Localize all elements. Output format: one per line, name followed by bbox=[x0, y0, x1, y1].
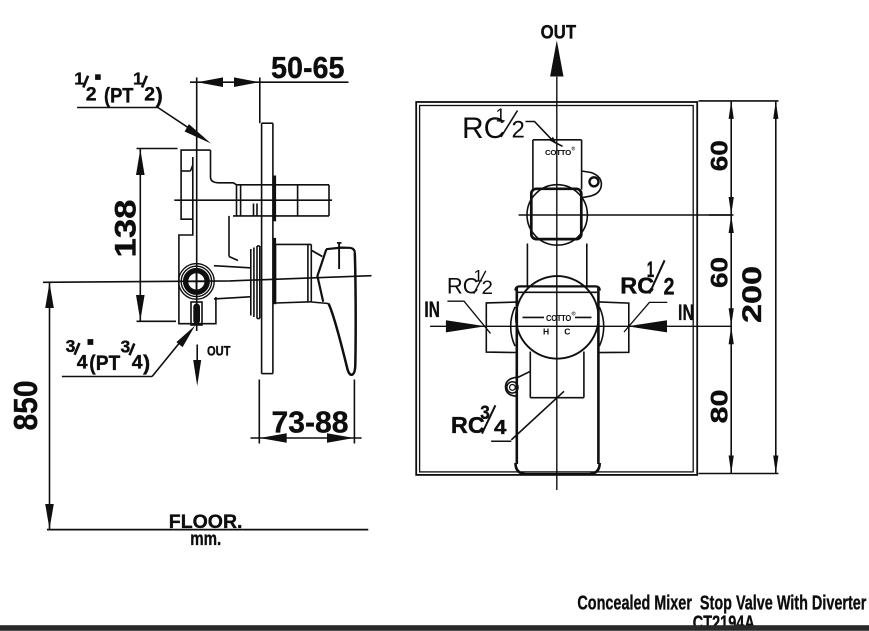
svg-text:OUT: OUT bbox=[207, 343, 231, 358]
svg-text:mm.: mm. bbox=[190, 528, 221, 550]
svg-text:®: ® bbox=[572, 311, 576, 318]
svg-text:850: 850 bbox=[7, 381, 44, 431]
svg-text:): ) bbox=[156, 84, 163, 108]
svg-text:2: 2 bbox=[86, 84, 97, 106]
svg-text:60: 60 bbox=[707, 140, 734, 171]
svg-text:2: 2 bbox=[512, 117, 525, 144]
svg-text:): ) bbox=[143, 351, 150, 375]
svg-text:IN: IN bbox=[678, 300, 694, 325]
svg-text:2: 2 bbox=[664, 273, 675, 300]
svg-text:4: 4 bbox=[77, 351, 88, 373]
svg-text:Concealed Mixer Stop Valve Wi: Concealed Mixer Stop Valve With Diverter bbox=[577, 593, 866, 615]
svg-text:50-65: 50-65 bbox=[271, 50, 345, 85]
svg-text:COTTO: COTTO bbox=[545, 148, 571, 157]
svg-text:1: 1 bbox=[74, 69, 84, 89]
svg-text:4: 4 bbox=[494, 416, 507, 439]
svg-text:200: 200 bbox=[737, 266, 767, 323]
svg-text:(PT: (PT bbox=[89, 351, 120, 375]
svg-text:H: H bbox=[543, 326, 549, 336]
svg-text:IN: IN bbox=[424, 297, 440, 322]
svg-text:C: C bbox=[564, 326, 570, 336]
svg-text:(PT: (PT bbox=[104, 84, 134, 108]
svg-text:1: 1 bbox=[647, 257, 655, 282]
svg-text:60: 60 bbox=[707, 257, 734, 288]
svg-text:73-88: 73-88 bbox=[272, 405, 349, 440]
svg-text:3: 3 bbox=[66, 336, 76, 356]
svg-text:1: 1 bbox=[133, 69, 143, 89]
svg-text:4: 4 bbox=[132, 351, 143, 373]
svg-text:2: 2 bbox=[482, 277, 494, 299]
svg-text:®: ® bbox=[572, 146, 576, 153]
svg-text:2: 2 bbox=[144, 84, 155, 106]
svg-text:80: 80 bbox=[707, 390, 734, 424]
svg-text:138: 138 bbox=[110, 200, 143, 258]
svg-text:OUT: OUT bbox=[541, 22, 577, 44]
svg-text:3: 3 bbox=[121, 337, 131, 357]
svg-text:1: 1 bbox=[496, 106, 506, 126]
svg-text:COTTO: COTTO bbox=[546, 314, 572, 323]
